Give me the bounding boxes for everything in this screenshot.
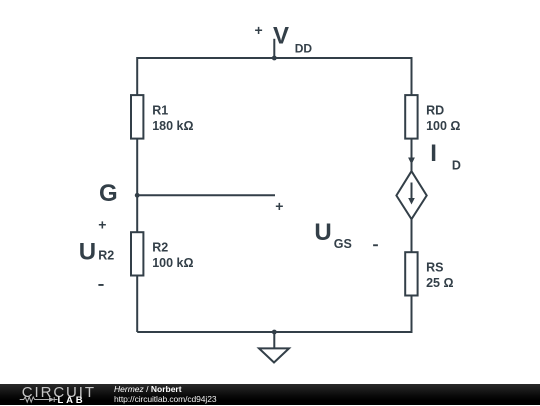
svg-text:U: U <box>79 239 96 266</box>
svg-text:RS: RS <box>426 261 443 275</box>
svg-text:I: I <box>430 140 437 167</box>
svg-text:180 kΩ: 180 kΩ <box>152 119 193 133</box>
svg-text:25 Ω: 25 Ω <box>426 276 453 290</box>
svg-text:U: U <box>314 219 331 246</box>
svg-text:+: + <box>98 217 106 233</box>
svg-text:+: + <box>275 198 283 214</box>
svg-text:R2: R2 <box>152 241 168 255</box>
svg-text:D: D <box>452 158 461 172</box>
svg-text:100 Ω: 100 Ω <box>426 119 460 133</box>
svg-text:R2: R2 <box>98 249 114 263</box>
svg-text:G: G <box>99 180 118 207</box>
svg-text:+: + <box>255 22 263 38</box>
svg-text:RD: RD <box>426 104 444 118</box>
svg-text:DD: DD <box>295 41 313 55</box>
svg-text:R1: R1 <box>152 104 168 118</box>
svg-text:V: V <box>273 23 289 50</box>
svg-text:100 kΩ: 100 kΩ <box>152 256 193 270</box>
svg-text:GS: GS <box>334 237 352 251</box>
svg-text:LAB: LAB <box>58 394 86 405</box>
